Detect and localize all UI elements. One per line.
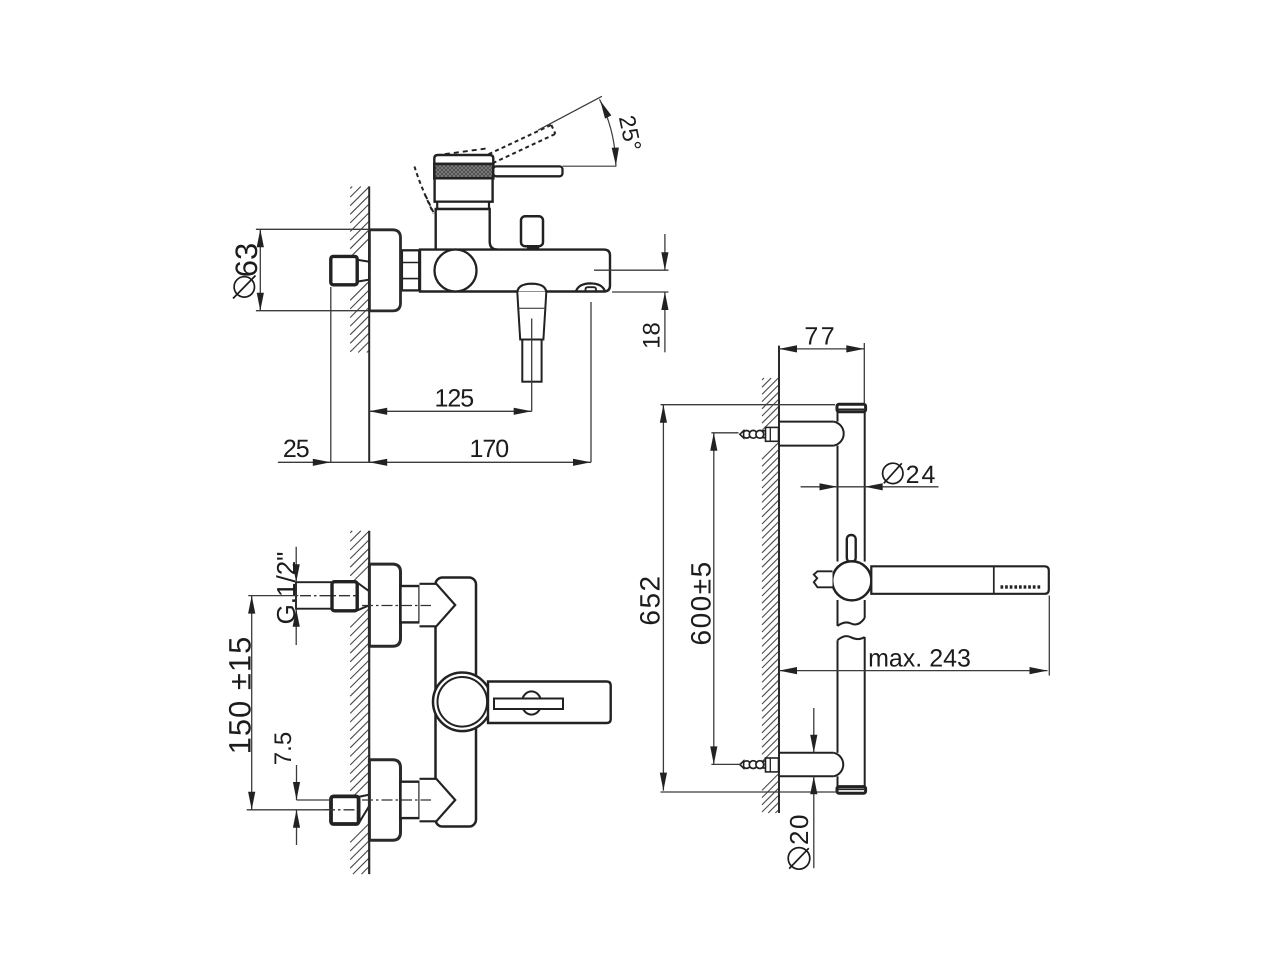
bottom valve centerline	[362, 799, 431, 801]
dim652 line	[662, 405, 664, 791]
label dia24 symbol	[883, 463, 903, 483]
dim24 arrow right	[865, 483, 883, 490]
dim63 line	[259, 229, 261, 310]
rail top cap	[837, 404, 866, 412]
dim18 arrow top	[661, 252, 668, 270]
dim63 ext bottom	[256, 310, 369, 312]
mixer body (side)	[420, 250, 610, 292]
svg-text:max. 243: max. 243	[868, 644, 971, 672]
top plug inner line	[769, 427, 771, 441]
knurled ring	[434, 164, 493, 178]
rail tube left edge	[837, 412, 839, 422]
dim25 arrow	[313, 459, 331, 466]
dim75 line	[296, 765, 298, 800]
dimmax arrow right	[1030, 667, 1048, 674]
bottom bracket arm	[779, 753, 834, 777]
rail break upper	[838, 618, 865, 626]
view1 wall line	[368, 186, 370, 462]
label dia63 symbol	[234, 277, 254, 297]
dim125 arrow left	[369, 408, 387, 415]
top bracket arm	[779, 422, 834, 446]
dim63 arrow bottom	[257, 293, 264, 311]
dim18 ext top	[594, 269, 669, 271]
bottom plug inner line	[769, 758, 771, 772]
top supply pipe	[296, 582, 332, 609]
dim18 line upper	[664, 234, 666, 270]
dim75 arrow top	[293, 782, 300, 800]
top inlet cone	[357, 583, 369, 611]
inlet cone (side)	[357, 260, 369, 282]
bottom union hex	[401, 782, 420, 818]
diverter knob stem	[529, 246, 531, 249]
svg-text:20: 20	[784, 813, 814, 845]
25deg arc arrow top	[600, 101, 611, 119]
slider hook	[814, 571, 833, 587]
dim150 ext top	[248, 595, 298, 597]
dim125 arrow right	[514, 408, 532, 415]
svg-text:77: 77	[804, 323, 837, 351]
dim652 ext top	[661, 404, 836, 406]
25deg dim arc	[600, 99, 616, 166]
aerator bump	[576, 283, 605, 291]
dashed lever (raised 25deg)	[489, 125, 552, 154]
dim20 arrow bottom	[810, 776, 817, 794]
bottom bracket bulge	[834, 753, 844, 777]
svg-text:18: 18	[639, 322, 666, 349]
valve cartridge circle	[435, 250, 477, 292]
bottom inlet cone	[359, 795, 370, 824]
dim20 line	[813, 708, 815, 753]
dim600 ext bottom	[711, 763, 741, 765]
view3 wall hatching	[762, 378, 764, 380]
svg-text:150 ±15: 150 ±15	[223, 636, 258, 755]
top escutcheon	[369, 564, 400, 646]
slider body circle	[832, 561, 871, 600]
handshower holder dome	[517, 284, 546, 292]
dim18 arrow bottom	[661, 292, 668, 310]
dim63 ext top	[256, 228, 369, 230]
bottom escutcheon	[369, 760, 400, 841]
dim170 arrow right	[573, 459, 591, 466]
handle boss outer	[433, 673, 492, 732]
lever bar	[494, 699, 563, 710]
svg-text:63: 63	[229, 243, 264, 277]
dimG arrow bottom	[293, 609, 300, 627]
svg-text:600±5: 600±5	[686, 560, 717, 645]
dim63 arrow top	[257, 229, 264, 247]
dim150 arrow bottom	[248, 792, 255, 810]
spout centerline ext	[531, 319, 533, 412]
handle boss inner	[438, 677, 488, 727]
dim170 arrow left	[369, 459, 387, 466]
mixer body (front)	[436, 578, 477, 827]
view2 wall line	[368, 531, 370, 874]
dim150 ext bottom	[247, 809, 331, 811]
dashed tilted cap outline	[436, 148, 489, 155]
dim150 arrow top	[248, 596, 255, 614]
rail bottom cap	[837, 787, 866, 794]
dimmax line	[779, 670, 1048, 672]
bottom check valve cone	[420, 779, 456, 822]
extension line nut face	[330, 287, 332, 462]
union hex facets	[402, 262, 419, 264]
bottom wall plug	[766, 758, 779, 772]
dimmax arrow left	[779, 667, 797, 674]
dim600 line	[713, 433, 715, 765]
top union hex	[401, 586, 420, 622]
aerator inner	[586, 287, 597, 291]
top check valve cone	[420, 584, 456, 627]
svg-text:7.5: 7.5	[270, 732, 297, 765]
dim600 ext top	[711, 432, 738, 434]
dim600 arrow top	[710, 433, 717, 451]
wall escutcheon (side)	[369, 230, 400, 311]
dim77 line	[779, 348, 864, 350]
diverter knob	[521, 216, 543, 246]
dim18 line lower	[664, 292, 666, 352]
view2 wall hatching	[350, 531, 352, 533]
top bracket bulge	[834, 422, 844, 446]
cap collar	[437, 202, 489, 209]
handshower head divider	[993, 566, 995, 594]
dim20 arrow top	[810, 735, 817, 753]
inlet hex nut (side)	[331, 256, 357, 284]
rail bottom cap inner line	[839, 788, 865, 790]
dim24 line	[801, 486, 939, 488]
svg-text:G.1/2": G.1/2"	[271, 552, 301, 625]
top supply centerline	[300, 595, 359, 597]
handshower spray dots	[1001, 585, 1004, 588]
dim24 arrow left	[820, 483, 838, 490]
label dia20 symbol	[788, 848, 810, 870]
cap top band	[434, 155, 493, 164]
bottom supply centerline	[324, 809, 359, 811]
rail tube right edge	[864, 412, 866, 562]
dim150 line	[251, 596, 253, 810]
dim77 ext right	[863, 343, 865, 404]
aerator centerline ext	[590, 302, 592, 462]
dimG arrow top	[293, 564, 300, 582]
holder cone lower	[518, 309, 545, 340]
cartridge neck	[436, 209, 498, 250]
dim652 ext bottom	[661, 791, 838, 793]
slider lock knob	[847, 535, 856, 562]
svg-text:125: 125	[434, 385, 473, 413]
view1 wall hatching	[350, 187, 352, 189]
dim600 arrow bottom	[710, 746, 717, 764]
rail top cap inner line	[839, 408, 865, 410]
bottom inlet nut	[331, 796, 359, 824]
dim75 arrow bottom	[293, 810, 300, 828]
svg-text:24: 24	[906, 461, 938, 489]
dimG ext	[295, 547, 297, 582]
top screw shank	[763, 430, 767, 432]
view3 wall line	[778, 346, 780, 813]
dimmax ext right	[1048, 596, 1050, 676]
handshower handle	[871, 566, 1049, 594]
dim652 arrow top	[660, 405, 667, 423]
bottom screw shank	[763, 760, 767, 762]
dim 25-170 line	[278, 461, 591, 463]
dim18 ext bottom	[612, 291, 669, 293]
top valve centerline	[362, 605, 431, 607]
top inlet nut	[332, 582, 357, 611]
top screw tip	[740, 431, 744, 438]
union hex (wall side)	[402, 250, 419, 290]
25deg dim leg line	[538, 96, 602, 130]
lever pivot circle	[522, 691, 542, 714]
top screw rings	[743, 431, 751, 439]
lever (front)	[488, 682, 611, 724]
25deg dim horizontal leg	[563, 165, 617, 167]
dim125 line	[369, 410, 532, 412]
dim75 ext	[297, 799, 332, 801]
svg-text:170: 170	[469, 435, 508, 463]
top wall plug	[766, 427, 779, 441]
cap body band	[435, 178, 493, 201]
spout tube	[522, 340, 541, 382]
svg-text:25: 25	[283, 435, 309, 463]
dim652 arrow bottom	[660, 773, 667, 791]
holder cone upper	[517, 292, 546, 309]
bottom screw rings	[743, 761, 751, 769]
rail break lower	[838, 636, 865, 640]
lever handle	[493, 166, 562, 176]
dim77 arrow right	[846, 345, 864, 352]
svg-text:652: 652	[635, 574, 666, 625]
25deg arc arrow bottom	[612, 148, 619, 166]
bottom screw tip	[740, 761, 744, 768]
dim77 arrow left	[779, 345, 797, 352]
